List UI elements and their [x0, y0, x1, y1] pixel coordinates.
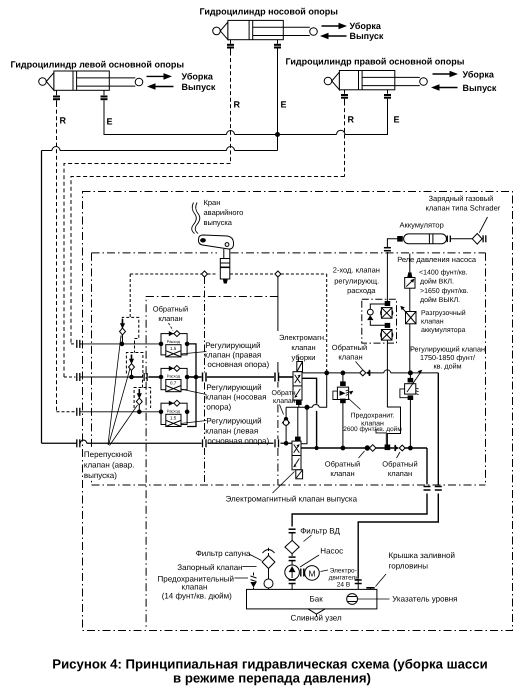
boundary bars return line	[355, 580, 362, 584]
mechanical linkage dash-dot from emergency valve	[146, 297, 278, 630]
pressure regulator 1750-1850	[400, 370, 422, 448]
arrow uborka right	[433, 71, 459, 78]
junction bus4 release check	[284, 442, 288, 446]
svg-text:основная опора): основная опора)	[207, 360, 269, 369]
junction x316 bus	[315, 446, 318, 449]
dashed pilot box bypass valve1	[122, 317, 139, 352]
wire collector assembly1 to vertical	[187, 344, 196, 427]
check valve 1 on bus	[365, 445, 376, 452]
wire E supply vertical x41	[41, 151, 43, 444]
boundary bars retract line x277	[275, 373, 279, 382]
2way bottom connector square	[385, 323, 390, 327]
2way flow control box B	[381, 330, 393, 341]
leader regulval2 label	[181, 389, 207, 395]
boundary bars bus2 x145.6	[144, 373, 147, 381]
svg-text:Расход: Расход	[167, 409, 181, 414]
dashed pilot box bypass valve3	[134, 388, 151, 409]
svg-text:регулирующ.: регулирующ.	[334, 277, 379, 286]
leader regulval1 label	[181, 352, 207, 355]
hop drain over x315	[312, 405, 319, 408]
2way top connector square	[385, 302, 390, 306]
svg-text:Регулирующий: Регулирующий	[206, 383, 261, 392]
crossing diamond x204	[202, 271, 208, 277]
boundary bars accumulator line	[384, 248, 391, 251]
svg-text:E: E	[394, 115, 400, 125]
breather filter diamond	[262, 553, 275, 579]
wire nose E down	[277, 52, 279, 151]
port restrictor nose E	[274, 40, 281, 52]
boundary bars below pump	[289, 580, 296, 584]
svg-text:Обратный: Обратный	[153, 305, 188, 314]
wire bus3 y411.3	[80, 411, 161, 413]
svg-text:Фильтр ВД: Фильтр ВД	[300, 527, 340, 536]
svg-text:Насос: Насос	[320, 547, 343, 556]
svg-text:<1400 фунт/кв.: <1400 фунт/кв.	[419, 269, 468, 277]
cylinder nose gear	[213, 20, 318, 39]
pressure switch connector	[407, 272, 412, 277]
wire 2way down with jog around label	[387, 340, 400, 445]
leader HP filter	[304, 535, 312, 542]
accumulator capsule	[404, 234, 447, 244]
boundary bars below HP filter	[289, 557, 296, 561]
leader pump	[300, 555, 319, 567]
inner dash-dot module box right	[485, 253, 487, 485]
relief pilot wire	[376, 429, 386, 445]
boundary bars bus4 x277	[275, 439, 279, 447]
wire retract to valve	[279, 376, 294, 378]
wire filter to pump	[291, 561, 293, 565]
dashed pilot line down to drain riser	[326, 274, 328, 371]
svg-text:R: R	[60, 116, 67, 126]
svg-text:Обратный: Обратный	[332, 343, 367, 352]
svg-text:E: E	[281, 100, 287, 110]
leader breather	[249, 554, 262, 561]
flow control assembly 2 nose	[159, 365, 189, 391]
svg-text:клапан (носовая: клапан (носовая	[205, 393, 266, 402]
svg-text:Рисунок 4: Принципиальная гидр: Рисунок 4: Принципиальная гидравлическая…	[52, 657, 487, 672]
port restrictor right E	[384, 90, 391, 102]
wire retract valve drain	[286, 373, 327, 407]
hop E supply over nose R	[227, 147, 235, 151]
svg-text:Реле давления насоса: Реле давления насоса	[397, 255, 477, 264]
crossing diamond x277	[275, 271, 281, 277]
wire retract main y376.5	[196, 376, 274, 378]
leader filler cap	[376, 574, 387, 587]
accumulator connector square	[398, 237, 403, 242]
port restrictor left E	[101, 90, 108, 103]
svg-text:Регулирующий: Регулирующий	[206, 417, 261, 426]
inner dash-dot module box bottom	[92, 484, 486, 486]
wire unloading valve down	[409, 324, 411, 372]
svg-text:клапан: клапан	[388, 469, 412, 478]
svg-text:1.5: 1.5	[170, 346, 177, 351]
cylinder right main gear	[324, 71, 427, 90]
pilot wire x277 solid	[277, 277, 279, 373]
svg-text:E: E	[107, 117, 113, 127]
svg-text:горловины: горловины	[389, 562, 429, 571]
svg-text:R: R	[234, 100, 241, 110]
module boundary dash-dot x204	[204, 277, 206, 485]
svg-text:в режиме перепада давления): в режиме перепада давления)	[173, 671, 371, 686]
leader level indicator	[358, 598, 390, 600]
junction bus1 bypass	[120, 342, 124, 346]
svg-text:клапан: клапан	[273, 398, 296, 405]
tank	[247, 589, 377, 609]
hop E bus over right R	[337, 130, 346, 134]
wire bus1 right-main dashed tail	[71, 343, 76, 345]
leader small check label	[280, 405, 284, 415]
junction collector bus2	[194, 375, 198, 379]
svg-text:(14 фунт/кв. дюйм): (14 фунт/кв. дюйм)	[162, 591, 232, 600]
2way flow control box A	[381, 308, 393, 319]
svg-text:Обратный: Обратный	[382, 460, 417, 469]
svg-text:аккумулятора: аккумулятора	[421, 327, 466, 334]
port restrictor left R	[53, 90, 60, 103]
boundary bars bus2	[77, 373, 80, 381]
svg-text:клапан: клапан	[338, 353, 362, 362]
junction E bus nose	[276, 133, 280, 137]
wire bus3 left-main dashed tail	[57, 411, 76, 413]
emergency valve cable squiggle	[192, 203, 200, 234]
dashed pilot box bypass valve2	[126, 353, 142, 388]
svg-text:выпуска: выпуска	[204, 218, 233, 227]
drain assembly	[308, 609, 325, 617]
wire release valve top	[286, 407, 298, 443]
boundary bars bus4 supply	[77, 439, 80, 447]
svg-text:Кран: Кран	[204, 198, 221, 207]
bypass valve 3	[136, 389, 142, 412]
svg-text:Сливной узел: Сливной узел	[291, 614, 342, 623]
arrow uborka nose	[322, 23, 348, 30]
arrow vypusk nose	[320, 33, 347, 40]
accumulator unloading valve	[400, 306, 416, 324]
wire pressure line y372.7	[302, 372, 438, 374]
svg-text:дойм ВКЛ.: дойм ВКЛ.	[420, 278, 454, 286]
leader regulval3 label	[181, 421, 207, 424]
2way valve dash-dot box	[362, 299, 397, 343]
wire assembly2 out	[187, 376, 196, 378]
wire x316 down from valve right	[302, 378, 317, 448]
arrow vypusk right	[431, 84, 458, 91]
boundary bars bus4 x204	[203, 439, 207, 447]
wire R nose dashed down	[230, 52, 232, 164]
wire check bus y447.5	[301, 447, 427, 449]
svg-text:Гидроцилиндр правой основной о: Гидроцилиндр правой основной опоры	[286, 57, 465, 67]
relief valve 2600	[333, 382, 354, 448]
leader check pressure	[356, 362, 363, 370]
svg-text:Расход: Расход	[167, 374, 181, 379]
dashed module box top y273.5	[130, 273, 327, 275]
electric motor	[305, 566, 320, 581]
wire release valve right to drain	[301, 407, 307, 444]
port restrictor right R	[341, 90, 348, 102]
svg-text:Обратный: Обратный	[325, 460, 360, 469]
bypass valve 1	[120, 319, 126, 344]
svg-text:Расход: Расход	[167, 339, 181, 344]
boundary bars bus1	[77, 340, 80, 348]
svg-text:M: M	[308, 568, 315, 578]
leader lines bypass label	[108, 336, 138, 446]
wire switch to unloading valve	[409, 288, 411, 311]
wire pressure switch tap	[409, 254, 411, 273]
boundary bars V1	[424, 487, 431, 491]
svg-text:1.5: 1.5	[170, 415, 177, 420]
retract solenoid coil	[297, 362, 303, 372]
shutoff valve ball	[264, 579, 273, 589]
release solenoid valve body	[292, 441, 301, 470]
emergency valve stem	[224, 249, 230, 259]
check valve 2 on bus	[394, 445, 405, 451]
release valve top connector	[296, 437, 301, 441]
svg-text:Разгрузочный: Разгрузочный	[421, 309, 466, 317]
connector square at bus	[385, 445, 390, 450]
filler cap	[366, 588, 374, 590]
svg-text:кв. дойм: кв. дойм	[433, 362, 461, 371]
svg-text:Запорный клапан: Запорный клапан	[177, 563, 242, 572]
junction relief line	[341, 446, 345, 450]
accumulator right stem bars	[447, 236, 450, 243]
wire E bus y134	[104, 102, 388, 135]
svg-text:двигатель: двигатель	[329, 575, 360, 582]
wire bus corner down V1	[292, 448, 427, 527]
bypass valve 2	[129, 355, 135, 378]
hop pressure line over accumulator drop	[384, 370, 391, 373]
svg-text:Выпуск: Выпуск	[350, 31, 384, 41]
retract valve bottom connector	[297, 400, 302, 404]
wire R left dashed down	[56, 103, 58, 412]
svg-text:расхода: расхода	[347, 286, 376, 295]
leader motor	[321, 570, 329, 572]
svg-text:24 В: 24 В	[337, 582, 350, 589]
svg-text:Бак: Бак	[310, 594, 324, 603]
leader shutoff	[242, 566, 256, 568]
2way loop with ball check	[367, 304, 385, 325]
svg-text:R: R	[348, 115, 355, 125]
boundary bars bus3	[77, 408, 80, 416]
svg-text:Выпуск: Выпуск	[182, 82, 216, 92]
leader relief14	[235, 577, 249, 579]
svg-text:основная опора): основная опора)	[207, 437, 269, 446]
wire E supply y150	[42, 150, 278, 152]
svg-text:Уборка: Уборка	[182, 72, 214, 82]
wire pump suction	[291, 584, 293, 590]
wire bus4 supply y442.8	[42, 442, 293, 444]
outer dash-dot enclosure	[83, 192, 513, 631]
hop bus4 over border	[80, 440, 86, 443]
boundary bars above HP filter	[289, 529, 296, 533]
wire return to tank	[357, 578, 359, 590]
junction regulator line bus	[409, 446, 413, 450]
breather cap	[263, 548, 275, 553]
svg-text:Фильтр сапуна: Фильтр сапуна	[196, 549, 251, 558]
svg-text:клапан: клапан	[330, 469, 354, 478]
svg-text:Предохранит.: Предохранит.	[351, 413, 395, 420]
leader check1	[359, 451, 365, 458]
svg-text:опора): опора)	[206, 402, 231, 411]
wire R right bus y176	[71, 177, 345, 344]
wire bus2 y376.5	[80, 376, 131, 378]
svg-text:Регулирующий: Регулирующий	[205, 341, 260, 350]
svg-text:Обратн.: Обратн.	[272, 389, 298, 397]
arrow vypusk left	[147, 83, 174, 90]
wire regulator top	[409, 373, 411, 379]
HP filter	[285, 533, 299, 556]
flow control assembly 1 right main	[159, 331, 189, 357]
junction regulator top	[408, 371, 412, 375]
svg-text:Крышка заливной: Крышка заливной	[389, 551, 455, 560]
label bypass valve	[83, 448, 134, 480]
inner dash-dot module box left	[91, 253, 93, 485]
wire pressure line right corner down V2	[358, 373, 438, 578]
svg-text:клапан (правая: клапан (правая	[204, 351, 261, 360]
junction bus2 bypass	[130, 375, 134, 379]
release solenoid coil	[296, 470, 303, 479]
check valve on pressure line	[360, 370, 371, 376]
svg-text:2-ход. клапан: 2-ход. клапан	[333, 266, 380, 275]
svg-text:клапан: клапан	[182, 583, 208, 592]
coupling bars pump motor	[301, 569, 304, 577]
junction bus3 bypass	[138, 410, 142, 414]
retract solenoid valve body	[293, 372, 302, 400]
relief valve 14psi	[250, 573, 256, 590]
hop E bus over nose R	[227, 131, 235, 135]
svg-text:дойм ВЫКЛ.: дойм ВЫКЛ.	[420, 296, 460, 304]
svg-text:аварийного: аварийного	[204, 208, 244, 217]
svg-text:2600 фунт/кв. дойм: 2600 фунт/кв. дойм	[343, 426, 402, 433]
svg-text:Гидроцилиндр носовой опоры: Гидроцилиндр носовой опоры	[200, 7, 339, 17]
wire R right dashed down	[344, 102, 346, 177]
relief valve 2600 drop	[342, 373, 344, 382]
junction drain	[305, 405, 309, 409]
wire bus1 y343.4	[80, 343, 161, 345]
svg-text:Уборка: Уборка	[350, 21, 382, 31]
svg-text:Электро-: Электро-	[330, 568, 357, 575]
boundary bars V2	[435, 487, 442, 491]
svg-text:Электромагнитный клапан выпуск: Электромагнитный клапан выпуска	[226, 495, 358, 504]
svg-text:>1650 фунт/кв.: >1650 фунт/кв.	[420, 287, 469, 295]
svg-text:Гидроцилиндр левой основной оп: Гидроцилиндр левой основной опоры	[11, 60, 185, 70]
pressure switch	[405, 278, 415, 289]
svg-text:Перепускной: Перепускной	[84, 450, 132, 459]
arrow uborka left	[147, 73, 173, 80]
junction pressure line left	[325, 371, 329, 375]
svg-text:клапан типа Schrader: клапан типа Schrader	[426, 204, 501, 213]
module boundary dash-dot x277 lower	[277, 382, 279, 485]
svg-text:клапан (левая: клапан (левая	[205, 427, 258, 436]
svg-text:клапан: клапан	[158, 314, 182, 323]
leader check valve label	[169, 323, 174, 331]
leader relief label	[349, 399, 361, 410]
svg-text:Уборка: Уборка	[463, 70, 495, 80]
svg-text:клапан: клапан	[291, 343, 315, 352]
port restrictor nose R	[227, 40, 234, 52]
dashed module box left x129.7	[129, 274, 131, 317]
wire retract valve pilot stub	[297, 357, 299, 362]
leader check2	[397, 452, 401, 458]
svg-text:уборки: уборки	[292, 353, 316, 362]
svg-text:Указатель уровня: Указатель уровня	[392, 595, 457, 604]
svg-text:Электромагн.: Электромагн.	[279, 333, 326, 342]
check valve ball release	[282, 417, 290, 425]
wire bus2 active thick	[131, 376, 161, 378]
wire accumulator to schrader	[450, 238, 472, 240]
svg-text:Аккумулятор: Аккумулятор	[400, 221, 444, 230]
wire R nose bus y163	[64, 164, 231, 378]
inner dash-dot module box top	[92, 252, 486, 254]
wire accumulator left down to 2way box	[387, 239, 397, 301]
svg-text:Выпуск: Выпуск	[463, 83, 497, 93]
svg-text:0.7: 0.7	[170, 381, 177, 386]
svg-text:Зарядный газовый: Зарядный газовый	[429, 194, 494, 203]
boundary bars retract line x204	[203, 373, 207, 382]
emergency valve body	[220, 259, 230, 284]
wire bus2 nose dashed tail	[64, 376, 76, 378]
schrader gas valve	[472, 217, 487, 244]
leader release valve label	[273, 472, 295, 494]
emergency valve lever	[198, 235, 233, 249]
level indicator sight glass	[347, 594, 358, 605]
hop E supply over left R	[52, 147, 60, 151]
svg-text:клапан: клапан	[421, 319, 444, 326]
svg-text:клапан (авар.: клапан (авар.	[84, 461, 135, 470]
svg-text:выпуска): выпуска)	[84, 471, 117, 480]
junction pressure-relief tap	[341, 371, 345, 375]
pump	[285, 565, 300, 580]
cylinder left main gear	[39, 71, 143, 90]
flow control assembly 3 left main	[159, 400, 189, 426]
